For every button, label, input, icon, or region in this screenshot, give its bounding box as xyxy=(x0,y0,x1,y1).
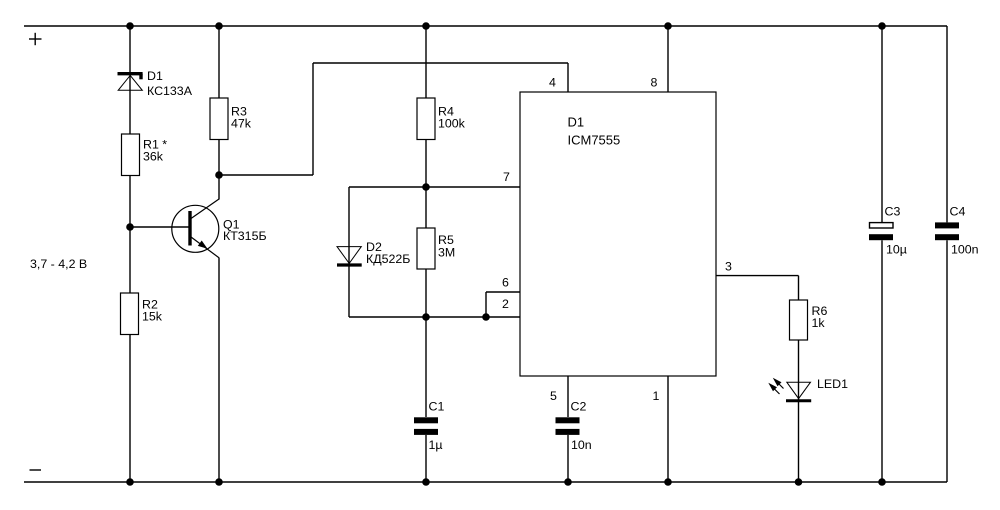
node top rail / D1 xyxy=(126,22,134,30)
wire pin 4 stub xyxy=(567,63,569,92)
svg-text:КТ315Б: КТ315Б xyxy=(223,229,267,243)
diode D2 (КД522Б) triangle xyxy=(337,247,361,264)
capacitor C2 bottom plate xyxy=(556,429,580,435)
wire node to R5 top xyxy=(425,187,427,228)
svg-text:D1: D1 xyxy=(147,69,163,83)
transistor Q1 body circle xyxy=(172,205,219,252)
transistor Q1 emitter arrow xyxy=(198,241,208,249)
wire D1 to R1 xyxy=(129,73,131,134)
diode D1 triangle xyxy=(118,75,142,90)
node pin 6 / pin 2 xyxy=(482,313,490,321)
node top rail / R4 xyxy=(422,22,430,30)
wire pin 6 stub xyxy=(486,291,520,293)
node bottom rail / C3 xyxy=(878,478,886,486)
wire R5 to bottom node xyxy=(425,269,427,317)
svg-text:10n: 10n xyxy=(571,438,592,452)
wire pin 3 horizontal xyxy=(716,275,799,277)
wire pin 6 riser xyxy=(485,292,487,317)
svg-text:100n: 100n xyxy=(951,243,979,257)
wire D2 top vertical xyxy=(348,187,350,264)
node bottom rail / pin 1 xyxy=(664,478,672,486)
svg-text:D1: D1 xyxy=(568,115,585,130)
svg-text:8: 8 xyxy=(651,76,658,90)
node top rail / R3 xyxy=(215,22,223,30)
minus terminal xyxy=(30,469,42,471)
resistor R2 xyxy=(121,293,139,335)
svg-text:C2: C2 xyxy=(571,400,587,414)
svg-text:7: 7 xyxy=(503,170,510,184)
wire top supply rail xyxy=(24,25,947,27)
plus terminal xyxy=(29,33,42,45)
svg-text:6: 6 xyxy=(502,276,509,290)
LED1 cathode bar xyxy=(786,399,811,402)
capacitor C2 top plate xyxy=(556,417,580,423)
node R5 bottom / trigger xyxy=(422,313,430,321)
wire R4 to node pin7 xyxy=(425,140,427,188)
wire collector node to pin 4 (horizontal lower) xyxy=(219,174,313,176)
wire C4 to bottom rail xyxy=(946,240,948,482)
node collector / R3 xyxy=(215,171,223,179)
resistor R1 xyxy=(122,134,140,176)
wire pin 3 down to R6 xyxy=(798,276,800,300)
wire C3 to bottom rail xyxy=(881,240,883,482)
wire top rail corner to C4 xyxy=(946,26,948,222)
wire base node to Q1 base xyxy=(130,226,189,228)
node bottom rail / R2 xyxy=(126,478,134,486)
resistor R4 xyxy=(417,98,435,140)
wire R3 to collector node xyxy=(218,140,220,176)
wire collector node to Q1 collector xyxy=(218,175,220,200)
wire Q1 emitter to bottom rail xyxy=(218,258,220,482)
capacitor C1 bottom plate xyxy=(414,429,438,435)
node R4 / pin 7 xyxy=(422,183,430,191)
svg-text:2: 2 xyxy=(502,297,509,311)
svg-text:C3: C3 xyxy=(885,205,901,219)
wire pin 8 to top rail xyxy=(667,26,669,92)
svg-text:3М: 3М xyxy=(438,246,455,260)
svg-text:КС133А: КС133А xyxy=(147,84,193,98)
wire R1 to base node xyxy=(129,175,131,227)
svg-text:3,7 - 4,2 В: 3,7 - 4,2 В xyxy=(30,257,87,271)
transistor Q1 collector lead xyxy=(191,199,219,219)
svg-text:LED1: LED1 xyxy=(817,377,848,391)
capacitor C3 bottom plate xyxy=(869,234,893,240)
node base of Q1 xyxy=(126,223,134,231)
capacitor C3 top plate (polarized, open) xyxy=(870,223,894,228)
wire bottom supply rail xyxy=(24,481,947,483)
svg-text:4: 4 xyxy=(549,76,556,90)
diode D1 (zener КС133А) cathode bar xyxy=(118,74,143,80)
svg-text:C1: C1 xyxy=(429,400,445,414)
capacitor C4 bottom plate xyxy=(935,234,959,240)
node bottom rail / C2 xyxy=(564,478,572,486)
resistor R6 xyxy=(790,300,808,340)
wire collector node to pin 4 (horizontal upper) xyxy=(313,62,568,64)
svg-text:36k: 36k xyxy=(143,150,164,164)
wire C2 to bottom rail xyxy=(567,435,569,482)
wire top rail to C3 xyxy=(881,26,883,222)
wire collector node to pin 4 (vertical riser) xyxy=(312,63,314,175)
svg-text:КД522Б: КД522Б xyxy=(366,252,410,266)
capacitor C4 top plate xyxy=(935,222,959,228)
diode D2 cathode bar xyxy=(337,263,362,266)
wire D2 bottom vertical xyxy=(348,265,350,317)
wire trigger net horizontal (pin 2) xyxy=(349,316,520,318)
svg-text:1k: 1k xyxy=(812,316,826,330)
LED1 emission arrow upper xyxy=(773,378,784,389)
svg-text:5: 5 xyxy=(550,389,557,403)
wire top rail to R4 xyxy=(425,26,427,98)
node top rail / C3 xyxy=(878,22,886,30)
wire pin 1 to bottom rail xyxy=(667,376,669,482)
wire pin 7 stub xyxy=(426,186,520,188)
resistor R5 xyxy=(417,228,435,269)
wire pin 5 to C2 xyxy=(567,376,569,417)
transistor Q1 emitter lead xyxy=(191,237,219,258)
op-amp U1 / IC D1 ICM7555 body xyxy=(520,92,716,376)
wire R2 to bottom rail xyxy=(129,334,131,482)
wire from top rail to D1 xyxy=(129,26,131,73)
wire base node to R2 xyxy=(129,227,131,293)
transistor Q1 base bar xyxy=(188,211,191,246)
LED1 triangle xyxy=(787,382,811,398)
node bottom rail / emitter xyxy=(215,478,223,486)
wire R6 to LED1 xyxy=(798,340,800,400)
svg-text:1: 1 xyxy=(653,389,660,403)
wire top rail to R3 xyxy=(218,26,220,98)
node bottom rail / C1 xyxy=(422,478,430,486)
svg-text:15k: 15k xyxy=(142,310,163,324)
svg-text:47k: 47k xyxy=(231,117,252,131)
svg-text:100k: 100k xyxy=(438,117,466,131)
svg-text:ICM7555: ICM7555 xyxy=(568,133,621,148)
LED1 emission arrow lower xyxy=(768,383,779,394)
resistor R3 xyxy=(210,98,228,140)
wire LED1 to bottom rail xyxy=(798,401,800,482)
wire node to C1 xyxy=(425,317,427,417)
capacitor C1 top plate xyxy=(414,417,438,423)
svg-text:10µ: 10µ xyxy=(886,243,907,257)
wire C1 to bottom rail xyxy=(425,435,427,482)
node bottom rail / LED1 xyxy=(795,478,803,486)
svg-text:3: 3 xyxy=(725,260,732,274)
svg-text:1µ: 1µ xyxy=(429,438,443,452)
wire node to D2 top xyxy=(349,186,426,188)
svg-text:C4: C4 xyxy=(950,205,966,219)
node top rail / pin 8 xyxy=(664,22,672,30)
